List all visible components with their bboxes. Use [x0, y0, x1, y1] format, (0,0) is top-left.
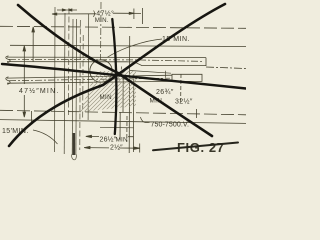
- left vertical dimension down arrowhead: [23, 112, 26, 117]
- bottom dimension 26.5 line: [86, 135, 134, 137]
- bottom dimension 2.5 left arrowhead: [84, 146, 90, 148]
- vertical rail line x88.5: [87, 14, 90, 120]
- dash-dot rail continuation right of plate: [206, 67, 246, 69]
- extension tick x142.5 top: [142, 8, 144, 24]
- leader from 15' MIN (left) to slot: [33, 130, 58, 144]
- svg-text:MIN.: MIN.: [95, 17, 109, 24]
- extension tick x139.5 bottom: [139, 144, 141, 153]
- bond plate rectangle on rail 1: [134, 58, 206, 66]
- rail bar 1 bottom edge: [7, 61, 134, 63]
- short ledge line y127.5: [100, 126, 134, 129]
- rail bar 2 centerline: [9, 78, 170, 81]
- svg-text:MIN: MIN: [100, 94, 113, 101]
- svg-text:26¾″: 26¾″: [156, 89, 174, 96]
- rail bar 1 top edge: [7, 56, 206, 59]
- svg-text:32½″: 32½″: [175, 98, 193, 106]
- vertical line x120: [119, 112, 121, 140]
- slot width dimension arrows at top: [57, 9, 77, 11]
- slot rounded bottom hook: [71, 155, 76, 160]
- svg-text:750-7500.V.: 750-7500.V.: [151, 122, 190, 129]
- top dimension left arrowhead: [52, 13, 57, 15]
- cancellation stroke S1 (top-left to bottom-right): [18, 5, 212, 136]
- bond plate rectangle on rail 2: [172, 74, 202, 81]
- rail bar 1 centerline: [9, 59, 203, 61]
- rail bar 2 break symbol: [6, 77, 10, 84]
- vertical rail line x69: [68, 8, 71, 115]
- leader bracket for 750-7500 V: [141, 117, 151, 123]
- dashed datum line D1 (top): [0, 26, 246, 28]
- top dimension line right segment: [113, 12, 141, 14]
- vertical rail line x133.5: [132, 74, 134, 152]
- vertical rail line x83: [82, 35, 85, 120]
- svg-text:26½″: 26½″: [100, 136, 117, 144]
- strike-through over FIG. 27: [153, 143, 238, 151]
- bottom dimension 2.5 right arrowhead: [134, 147, 140, 149]
- manhole circle: [90, 60, 112, 82]
- rail bar 2 bottom edge: [7, 81, 172, 83]
- bottom dimension 2.5 line: [84, 147, 139, 150]
- svg-text:MIN: MIN: [116, 137, 128, 144]
- extension tick x133.5 top: [133, 9, 135, 20]
- hatched crossing zone: [52, 60, 192, 120]
- tick at x121: [120, 67, 122, 70]
- cancellation stroke S2 (bottom-left to top-right): [9, 4, 225, 146]
- bottom dimension 26.5 left arrowhead: [86, 135, 92, 137]
- vertical rail line x80: [79, 20, 82, 150]
- tick on rail 2 at x165: [164, 71, 166, 78]
- tick vertical x196.5: [195, 109, 197, 118]
- gauge line L2: [0, 120, 246, 124]
- slot dark fill: [73, 133, 75, 155]
- top dimension right arrowhead: [129, 12, 134, 14]
- left vertical dimension stem lower: [23, 95, 25, 116]
- top dimension line left segment: [52, 13, 96, 15]
- dashed vertical x127: [126, 116, 128, 142]
- svg-text:2½″: 2½″: [110, 143, 123, 151]
- rail bar 2 top edge: [7, 75, 172, 78]
- cancellation stroke S4 (near-vertical): [112, 19, 116, 134]
- vertical rail line x129.5: [128, 36, 131, 153]
- vertical rail line x65: [63, 13, 66, 154]
- dashed vertical x181: [180, 74, 182, 104]
- left vertical dimension up arrowhead: [23, 46, 26, 51]
- centerline paren mark left of 47.5 label: [93, 11, 94, 17]
- slot right wall: [75, 19, 78, 155]
- vertical rail line x55: [54, 7, 56, 152]
- left vertical dimension stem upper: [23, 47, 25, 84]
- slot left wall: [71, 19, 74, 155]
- rail bar 1 break symbol: [6, 56, 10, 63]
- dashed datum line D2 (bottom): [0, 110, 246, 115]
- gauge line L1: [10, 45, 246, 46]
- svg-text:47½″MIN.: 47½″MIN.: [19, 87, 59, 95]
- vertical line x123: [122, 76, 124, 112]
- up arrow at x33 to dashed line D1: [32, 28, 34, 62]
- tick vertical x31.5 (below D2): [30, 111, 32, 124]
- paper background: [0, 0, 246, 166]
- centerline vertical x101: [100, 2, 102, 60]
- cancellation stroke S3 (near-horizontal): [2, 64, 246, 89]
- leader from 15 MIN (right) to rails: [107, 39, 162, 58]
- upper edge line feeding bond plate 2: [130, 71, 171, 74]
